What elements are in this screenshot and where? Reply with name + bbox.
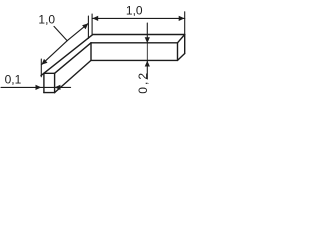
- svg-text:1,0: 1,0: [38, 12, 55, 26]
- svg-text:1,0: 1,0: [126, 4, 143, 18]
- svg-text:0,2: 0,2: [136, 71, 150, 94]
- svg-text:0,1: 0,1: [5, 73, 22, 87]
